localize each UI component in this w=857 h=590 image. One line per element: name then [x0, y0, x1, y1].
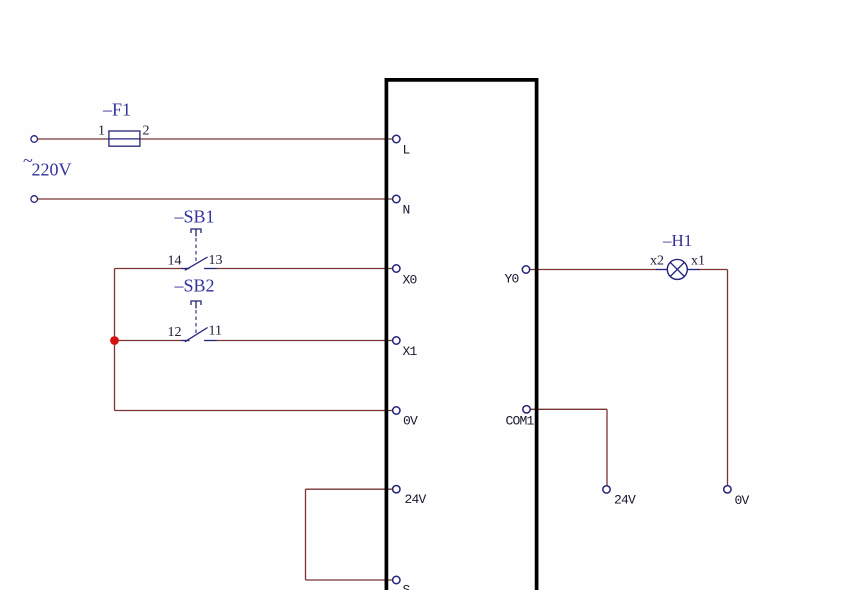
wire 24V to S loop horizontal bottom: [306, 579, 393, 581]
svg-text:S: S: [403, 583, 411, 590]
wire X0 line right segment: [216, 268, 394, 270]
pushbutton SB2 contact: [182, 328, 217, 342]
wire COM1 horizontal: [530, 408, 608, 410]
svg-text:0V: 0V: [403, 414, 418, 429]
svg-text:0V: 0V: [735, 493, 750, 508]
svg-text:14: 14: [168, 253, 182, 268]
lamp H1: [656, 259, 700, 279]
svg-text:24V: 24V: [614, 493, 636, 508]
svg-text:2: 2: [143, 124, 150, 139]
svg-text:13: 13: [209, 253, 223, 268]
wire COM1 vertical to 24V terminal: [606, 409, 608, 486]
svg-text:11: 11: [209, 324, 222, 339]
svg-text:24V: 24V: [405, 492, 427, 507]
svg-text:X1: X1: [403, 344, 418, 359]
svg-text:N: N: [403, 203, 410, 218]
fuse F1 body: [109, 131, 140, 146]
svg-text:COM1: COM1: [506, 414, 535, 429]
wire N line: [38, 198, 394, 200]
svg-text:Y0: Y0: [505, 272, 519, 287]
wire Y0 to lamp: [529, 269, 657, 271]
terminal circle COM1: [523, 406, 530, 413]
wire lamp to right corner: [698, 269, 728, 271]
wire left vertical bus: [114, 269, 116, 411]
terminal circle X0: [393, 265, 400, 272]
terminal circle Y0: [522, 266, 529, 273]
svg-text:–SB2: –SB2: [174, 276, 215, 296]
PLC box: [386, 80, 536, 590]
pushbutton SB1 actuator: [191, 229, 201, 263]
junction dot on X1 line: [110, 336, 119, 345]
wire 0V line: [115, 410, 394, 412]
svg-text:12: 12: [168, 325, 182, 340]
terminal circle X1: [393, 337, 400, 344]
node 0V field terminal: [724, 486, 731, 493]
svg-text:x1: x1: [691, 254, 705, 269]
node source terminal top (L supply): [31, 136, 38, 143]
terminal circle 0V: [393, 407, 400, 414]
node source terminal bottom (N supply): [31, 196, 38, 203]
wire X1 line right segment: [216, 340, 394, 342]
wire 24V to S loop vertical: [305, 489, 307, 580]
svg-text:L: L: [403, 143, 410, 158]
node 24V field terminal: [603, 486, 610, 493]
wire X0 line left segment: [115, 268, 183, 270]
svg-text:–SB1: –SB1: [174, 207, 215, 227]
wire L line: [38, 138, 394, 140]
svg-text:220V: 220V: [32, 160, 72, 180]
terminal circle 24V: [393, 486, 400, 493]
svg-text:–H1: –H1: [662, 231, 692, 250]
svg-text:–F1: –F1: [102, 100, 131, 120]
pushbutton SB1 contact: [182, 257, 217, 270]
terminal circle S: [393, 576, 400, 583]
pushbutton SB2 actuator: [191, 301, 201, 335]
svg-text:x2: x2: [650, 254, 664, 269]
wire right vertical to 0V terminal: [727, 270, 729, 487]
terminal circle L: [393, 135, 400, 142]
svg-text:1: 1: [98, 124, 105, 139]
wire X1 line left segment: [115, 340, 183, 342]
wire 24V to S loop horizontal top: [306, 488, 393, 490]
terminal circle N: [393, 195, 400, 202]
svg-text:X0: X0: [403, 272, 417, 287]
